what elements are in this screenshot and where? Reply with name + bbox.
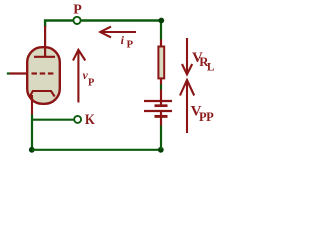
wire top-left vertical stub <box>44 20 46 28</box>
wire cathode to bottom-left vertical <box>31 115 33 151</box>
resistor RL bottom lead <box>160 79 162 85</box>
battery VPP stem lower <box>160 111 162 126</box>
junction top-right <box>158 18 164 24</box>
wire K horizontal <box>31 119 74 121</box>
wire bottom horizontal <box>32 149 161 151</box>
wire right upper vertical <box>160 21 162 40</box>
svg-text:P: P <box>73 3 82 18</box>
battery long plate 1 <box>144 100 172 102</box>
battery short plate 2 <box>155 115 168 118</box>
resistor RL top lead <box>160 39 162 46</box>
tube grid dashes <box>32 72 38 74</box>
tube plate lead <box>44 26 46 56</box>
tube plate bar <box>34 56 55 58</box>
voltage arrow VRL <box>182 38 192 75</box>
resistor RL body <box>158 47 164 79</box>
svg-text:L: L <box>207 61 215 73</box>
voltage arrow VPP <box>180 80 194 134</box>
svg-text:P: P <box>127 38 134 50</box>
battery short plate 1 <box>155 104 168 107</box>
junction bottom-right <box>158 147 164 153</box>
junction bottom-left <box>29 147 35 153</box>
tube cathode lead <box>31 95 33 115</box>
svg-text:K: K <box>85 111 95 127</box>
node K circle <box>74 116 81 123</box>
svg-text:PP: PP <box>199 110 214 124</box>
wire top horizontal <box>44 19 162 21</box>
svg-text:P: P <box>88 78 94 89</box>
battery VPP stem upper <box>160 89 162 106</box>
tube grid lead <box>10 72 28 74</box>
voltage arrow vP <box>73 50 85 103</box>
wire right lower vertical <box>160 125 162 150</box>
tube grid lead green stub <box>7 72 10 74</box>
tube V1 envelope <box>27 47 60 104</box>
tube cathode <box>30 91 55 97</box>
current arrow iP <box>100 27 136 38</box>
node P circle <box>73 17 80 24</box>
wire between resistor and battery <box>160 84 162 90</box>
battery long plate 2 <box>144 110 172 112</box>
